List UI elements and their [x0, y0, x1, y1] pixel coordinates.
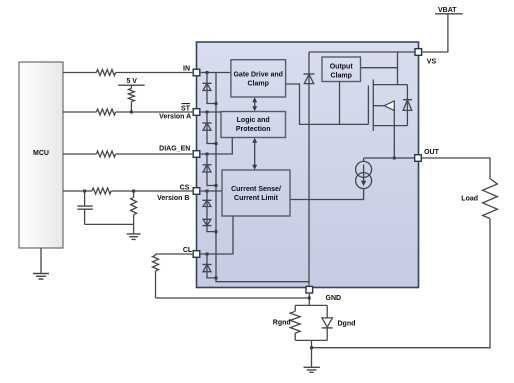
- resistor R_IN series: [96, 70, 115, 76]
- label DIAG_EN: [159, 146, 190, 153]
- node D_ST to rail: [215, 142, 218, 145]
- wire CL resistor return to GND node: [156, 297, 310, 299]
- svg-text:Gate Drive and: Gate Drive and: [233, 72, 282, 79]
- ground (MCU): [33, 274, 49, 280]
- node CL/ESD junction: [206, 253, 209, 256]
- node CS/ESD junction: [206, 190, 209, 193]
- svg-text:Load: Load: [461, 196, 478, 203]
- svg-text:IN: IN: [183, 66, 190, 73]
- wire Output Clamp bottom to gate line: [339, 82, 341, 125]
- node D_CS to rail: [215, 230, 218, 233]
- label ST with overline: [181, 104, 191, 113]
- svg-text:MCU: MCU: [33, 150, 49, 157]
- wire bottom bar to ground: [311, 340, 313, 367]
- ESD rail (internal ground rail): [216, 73, 309, 282]
- svg-text:5 V: 5 V: [126, 78, 137, 85]
- label Version B: [157, 195, 189, 202]
- svg-text:Protection: Protection: [236, 126, 271, 133]
- block Gate Drive and Clamp: [231, 60, 286, 97]
- resistor R_DIAG series: [96, 151, 115, 157]
- wire CS row with resistor: [63, 190, 192, 192]
- transistor Q1 power MOSFET: [368, 80, 407, 159]
- node ST/ESD junction: [206, 111, 209, 114]
- svg-text:Version A: Version A: [159, 114, 191, 121]
- label GND: [326, 295, 342, 302]
- wire Load return to ground node: [312, 219, 491, 348]
- svg-text:Current Limit: Current Limit: [234, 195, 279, 202]
- 5V supply rail: [118, 78, 145, 85]
- wire CL row: [156, 253, 193, 255]
- wire VS to drain: [397, 52, 399, 85]
- wire ST pin to Logic: [201, 111, 221, 113]
- wire VBAT to VS: [423, 14, 448, 52]
- svg-text:VBAT: VBAT: [438, 7, 457, 14]
- block Output Clamp: [322, 57, 361, 82]
- label CS: [180, 184, 190, 191]
- wire GND pin down: [308, 294, 310, 306]
- svg-text:Version B: Version B: [157, 195, 189, 202]
- resistor R_ST series: [96, 109, 115, 115]
- wire Rgnd/Dgnd top bar: [295, 304, 327, 306]
- wire Rgnd/Dgnd bottom bar: [295, 339, 327, 341]
- wire ST row with resistor: [63, 111, 192, 113]
- svg-text:Clamp: Clamp: [247, 80, 268, 87]
- wire MCU to ground: [40, 248, 42, 273]
- pin CL: [193, 251, 200, 258]
- resistor R_CS pulldown: [131, 191, 137, 234]
- node pullup/ST junction: [130, 111, 133, 114]
- svg-text:Current Sense/: Current Sense/: [231, 186, 281, 193]
- label IN: [183, 66, 190, 73]
- pin VS: [415, 49, 422, 56]
- node D_CL to rail: [215, 276, 218, 279]
- VBAT supply bar: [435, 7, 463, 14]
- node CS/cap junction: [83, 190, 86, 193]
- wire DIAG_EN row with resistor: [63, 153, 192, 155]
- svg-text:DIAG_EN: DIAG_EN: [159, 146, 190, 153]
- wire IN row with resistor: [63, 72, 192, 74]
- pin IN: [193, 69, 200, 76]
- svg-text:VS: VS: [427, 59, 437, 66]
- wire OUT to Load: [422, 158, 490, 179]
- svg-text:Rgnd: Rgnd: [273, 319, 291, 326]
- node source/OUT junction: [393, 157, 396, 160]
- node DIAG/ESD junction: [206, 153, 209, 156]
- ground (CS network): [127, 234, 141, 240]
- IC device block U1: [197, 42, 419, 288]
- svg-text:GND: GND: [326, 295, 342, 302]
- resistor R_CL to ground net: [153, 254, 159, 298]
- label VS: [427, 59, 437, 66]
- current source I_sense: [290, 158, 372, 200]
- resistor R_CS series: [92, 188, 111, 194]
- svg-text:CL: CL: [183, 247, 193, 254]
- diode Dgnd: [322, 305, 356, 340]
- node D_IN to rail: [215, 102, 218, 105]
- wire Output Clamp right to drain drop: [361, 67, 398, 69]
- pin DIAG_EN: [193, 151, 200, 158]
- diode D_IN ESD: [203, 73, 217, 104]
- diode D_CS1 ESD: [203, 191, 217, 232]
- resistor Load: [461, 179, 497, 219]
- pin GND: [306, 286, 313, 293]
- wire OUT internal: [364, 157, 415, 159]
- diode D_ST ESD: [203, 112, 217, 144]
- wire CS pin to Current Sense: [201, 190, 222, 192]
- label Version A: [159, 114, 191, 121]
- svg-text:CS: CS: [180, 184, 190, 191]
- pin ST: [193, 109, 200, 116]
- wire Gate Drive output to gate: [286, 84, 369, 124]
- pin OUT: [415, 155, 422, 162]
- pin CS: [193, 188, 200, 195]
- wire CL pin to Current Sense bottom: [201, 216, 233, 254]
- resistor Rgnd: [273, 305, 300, 340]
- MCU block: [19, 62, 63, 248]
- svg-text:Clamp: Clamp: [330, 72, 351, 79]
- svg-text:Logic and: Logic and: [237, 117, 270, 124]
- label CL: [183, 247, 193, 254]
- label OUT: [424, 149, 440, 156]
- node GND/CL return junction: [308, 297, 311, 300]
- svg-text:ST: ST: [181, 105, 191, 112]
- capacitor C_CS: [77, 191, 133, 224]
- svg-text:Dgnd: Dgnd: [338, 320, 356, 327]
- svg-text:Output: Output: [330, 64, 354, 71]
- resistor R_pullup 5V to ST: [128, 85, 134, 112]
- wire VS internal rail: [309, 51, 414, 53]
- diode D_CS2 ESD (reversed): [203, 219, 212, 225]
- block Logic and Protection: [221, 112, 286, 138]
- diode D_body of Q1: [403, 85, 412, 126]
- arrow Gate Drive / Logic: [252, 97, 257, 111]
- diode D_sub VS-GND clamp: [304, 52, 315, 286]
- ground (system): [304, 367, 320, 372]
- node D_DIAG to rail: [215, 184, 218, 187]
- block Current Sense / Current Limit: [222, 170, 290, 216]
- wire IN pin to Gate Drive: [201, 72, 231, 74]
- arrow Logic / Current Sense: [252, 138, 257, 170]
- node CS/pulldown junction: [132, 190, 135, 193]
- node load return junction: [310, 346, 313, 349]
- wire DIAG_EN pin to Logic: [201, 138, 233, 155]
- svg-text:OUT: OUT: [424, 149, 440, 156]
- diode D_DIAG ESD: [203, 154, 217, 186]
- diode D_CL ESD: [203, 254, 217, 278]
- node IN/ESD junction: [206, 71, 209, 74]
